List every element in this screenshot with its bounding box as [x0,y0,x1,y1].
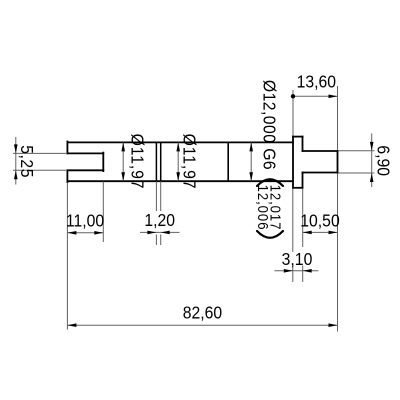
arrow dia11,97b bottom (down) [176,172,180,181]
wire flange bottom edge [293,187,303,189]
dim 1,20 line [140,231,180,233]
arrow 6,90 bottom (up) [370,173,374,182]
svg-text:6,90: 6,90 [373,145,393,176]
dim dia 11,97 second line [177,142,179,181]
arrow 5,25 top (down) [14,144,18,153]
arrow 11,00 left [67,231,76,235]
wire pin bottom edge [303,172,338,174]
svg-text:13,60: 13,60 [297,71,336,91]
label tolerance fraction (12,017 / 12,006) rotated [255,185,285,231]
dim 6,90 extension bottom [339,172,375,174]
dim 1,20 extension right [160,181,162,245]
wire top edge of shaft [67,141,293,143]
dim 82,60 line [67,324,337,326]
svg-text:1,20: 1,20 [144,210,175,230]
arrow 10,50 right [329,231,338,235]
dim 3,10 stub left [292,266,294,283]
wire section boundary line [227,142,229,181]
svg-text:5,25: 5,25 [17,145,37,178]
svg-text:Ø11,97: Ø11,97 [127,134,147,190]
dim dia 12,000 line [250,142,252,181]
svg-text:11,00: 11,00 [66,210,104,230]
dim 5,25 extension top [13,152,67,154]
arrow dia11,97b top (up) [176,142,180,151]
dim 6,90 line [371,133,373,187]
dim 5,25 extension bottom [13,169,67,171]
dim 11,00 extension left shared 82,60 [66,183,68,330]
wire slot bottom edge [67,169,103,171]
wire flange right face upper [302,137,304,151]
dim 10,50 line [303,231,338,233]
arrow dia11,97a top (up) [121,142,125,151]
arrow 13,60 right [329,95,338,99]
arrow 11,00 right [94,231,103,235]
arrow 10,50 left [303,231,312,235]
dim 3,10 extension left [292,189,294,252]
dim 13,60 extension right shared [337,86,339,150]
wire flange top edge [293,136,303,138]
svg-text:3,10: 3,10 [282,249,313,269]
wire bottom edge of shaft [67,180,293,182]
arrow 1,20 right (left-pointing) [161,231,170,235]
wire slot top edge [67,152,103,154]
svg-text:82,60: 82,60 [183,303,222,323]
dim dia 11,97 first line [122,142,124,181]
wire pin top edge [303,150,338,152]
dim 82,60 extension right [337,174,339,332]
dim 10,50 extension left [302,189,304,247]
thin dimension and extension lines [13,86,375,332]
wire groove left line [155,142,157,181]
dim 13,60 extension left [292,90,294,136]
svg-text:10,50: 10,50 [300,210,339,230]
dim 11,00 extension right [102,182,104,243]
wire flange right face lower [302,173,304,188]
dim 13,60 line [293,95,338,97]
svg-text:Ø12,000 G6: Ø12,000 G6 [259,80,279,170]
wire groove right line [160,142,162,181]
dim 1,20 extension left [155,181,157,245]
part outline: shaft body [67,137,337,188]
dim 3,10 stub right [302,266,304,283]
dim 6,90 extension top [339,150,375,152]
arrow 3,10 left (right-pointing) [284,269,293,273]
arrow dia12,000 bottom (down) [249,172,253,181]
svg-text:Ø11,97: Ø11,97 [179,134,199,190]
dim 5,25 line [15,137,17,185]
dot 13,60 left terminator [291,94,295,98]
wire slot inner face [102,153,104,172]
arrowheads [14,94,374,327]
wire pin end face [337,151,339,173]
wire left face lower [66,170,68,182]
big open paren arc [257,179,283,186]
dimension texts [17,71,394,322]
arrow 6,90 top (down) [370,142,374,151]
arrow 5,25 bottom (up) [14,170,18,179]
arrow 82,60 left [67,323,76,327]
arrow 3,10 right (left-pointing) [303,269,312,273]
dim 3,10 line [275,270,319,272]
arrow 82,60 right [329,323,338,327]
wire flange left face [292,137,294,188]
arrow 1,20 left (right-pointing) [147,231,156,235]
big close paren arc [257,231,283,238]
svg-text:12,006: 12,006 [255,185,272,231]
arrow dia11,97a bottom (down) [121,172,125,181]
arrow dia12,000 top (up) [249,142,253,151]
wire left face upper [66,142,68,154]
dim 11,00 line [67,232,103,234]
